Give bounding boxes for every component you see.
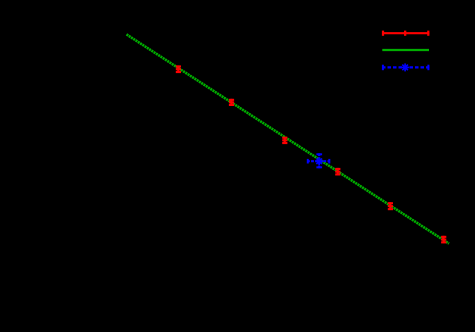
- red errorbar point 2: [229, 99, 234, 106]
- left cap: [307, 159, 309, 164]
- red errorbar point 4: [335, 168, 340, 176]
- asterisk marker: [315, 157, 323, 165]
- right cap: [328, 159, 330, 164]
- legend sample: blue dashed with asterisk: [382, 63, 430, 71]
- red errorbar point 3: [282, 137, 287, 144]
- blue xy-errorbar point with asterisk: [307, 153, 331, 168]
- legend sample: green line: [382, 49, 429, 51]
- horizontal error bar (dashed): [307, 160, 330, 162]
- vertical error bar (dashed): [318, 153, 320, 168]
- red errorbar point 1: [176, 65, 181, 73]
- red errorbar point 5: [388, 202, 393, 210]
- green fit line f(x): [127, 34, 450, 243]
- red errorbar point 6: [441, 236, 446, 244]
- bottom cap: [316, 166, 322, 168]
- top cap: [316, 153, 322, 155]
- legend sample: red errorbars: [382, 31, 430, 36]
